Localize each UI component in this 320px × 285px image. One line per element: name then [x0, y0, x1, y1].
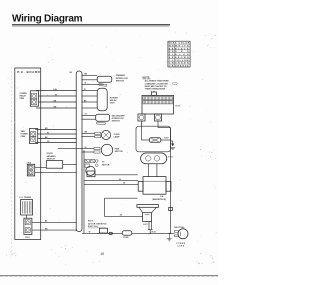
junction dots CN-B wires — [40, 167, 41, 168]
svg-text:(MAGNETRON): (MAGNETRON) — [152, 198, 166, 201]
switch S3 door sensing lower — [99, 228, 107, 233]
svg-text:P.D.S: P.D.S — [88, 221, 94, 223]
ground at plug — [167, 233, 172, 241]
svg-text:24: 24 — [120, 214, 122, 217]
connector CN-B — [27, 164, 34, 176]
svg-text:P.C. BOARD: P.C. BOARD — [17, 70, 40, 74]
lamp plug — [95, 132, 101, 134]
svg-text:INTERLOCK: INTERLOCK — [116, 78, 129, 80]
svg-text:(DOOR SENSING: (DOOR SENSING — [88, 223, 107, 225]
filament housing (magnetron filament) — [141, 153, 167, 164]
label var power pwb — [21, 130, 29, 138]
left margin artifact line — [10, 67, 12, 257]
P.C. board U1 — [15, 68, 41, 240]
junction dots on bus — [76, 75, 83, 231]
magnetron V1 — [138, 177, 171, 195]
svg-text:26: 26 — [85, 147, 87, 149]
wire group2-3 — [38, 138, 76, 140]
wire bus to lamp 1 — [82, 132, 95, 134]
wire filament drop 2 — [156, 164, 158, 177]
svg-text:SWITCH): SWITCH) — [88, 226, 98, 228]
svg-text:SECONDARY: SECONDARY — [112, 114, 126, 117]
wire bus to relay 2 — [82, 95, 97, 97]
wire LV trans to CN-A — [26, 215, 28, 218]
wire fuse to plug — [132, 232, 175, 234]
wire HVC lead 1 — [148, 222, 150, 230]
svg-text:CN-A: CN-A — [25, 236, 30, 239]
title underline thick — [12, 24, 170, 25]
wire bus to primary interlock 2 — [82, 79, 97, 81]
svg-text:19: 19 — [100, 252, 104, 256]
svg-text:BK: BK — [169, 48, 174, 50]
wire group2-4 — [35, 142, 76, 144]
door sensing switch lower label — [88, 221, 107, 228]
svg-text:YL: YL — [169, 60, 174, 62]
HVT top stub — [152, 92, 157, 95]
svg-text:NEUTRAL: NEUTRAL — [174, 226, 185, 229]
label power relay pwb — [20, 93, 28, 100]
wire 24 filament feed 1 — [84, 180, 138, 182]
svg-text:PRIMARY: PRIMARY — [116, 74, 126, 77]
svg-text:W: W — [47, 132, 49, 134]
wire W — [39, 95, 77, 97]
svg-text:25: 25 — [123, 183, 125, 185]
connector CN-A — [24, 218, 32, 234]
svg-text:RD: RD — [169, 51, 174, 53]
svg-text:WIRE COLOR: WIRE COLOR — [169, 43, 190, 45]
wire RD CN-A pin2 — [32, 229, 76, 231]
svg-text:THEIR OPERATIONS: THEIR OPERATIONS — [145, 88, 166, 91]
svg-text:FAN: FAN — [115, 147, 120, 150]
wire door switch to bus — [63, 163, 76, 165]
svg-text:PWB: PWB — [21, 136, 26, 138]
switch S2 secondary interlock — [96, 114, 110, 125]
svg-text:W-16: W-16 — [151, 232, 155, 234]
wire BR — [35, 129, 76, 131]
svg-text:OVEN: OVEN — [114, 134, 120, 136]
motor B1 fan motor — [101, 144, 112, 155]
ground — [170, 147, 175, 149]
wire filament drop 1 — [147, 164, 149, 177]
svg-text:SWITCH: SWITCH — [112, 121, 121, 123]
svg-text:Wiring Diagram: Wiring Diagram — [12, 14, 83, 25]
svg-text:W: W — [85, 83, 87, 85]
svg-text:POWER: POWER — [110, 97, 118, 99]
svg-text:H.V.C.: H.V.C. — [143, 224, 149, 226]
svg-text:UNIT: UNIT — [110, 103, 116, 105]
fan plug — [94, 148, 100, 150]
wire HVC lead 2 — [151, 222, 153, 230]
wire waveguide top feed — [104, 197, 137, 199]
scan noise speckles — [6, 30, 216, 265]
svg-text:CHANGED LOCATIONS: CHANGED LOCATIONS — [145, 82, 169, 85]
svg-text:MUST BE PLACED TO: MUST BE PLACED TO — [145, 85, 167, 88]
switch S1 primary interlock — [97, 76, 112, 86]
terminal bus strip — [76, 71, 82, 232]
title underline thin — [12, 26, 169, 29]
svg-text:BROWN: BROWN — [175, 57, 189, 59]
diode D1 with ground — [171, 141, 175, 146]
wire bus to secondary interlock 1 — [82, 114, 96, 116]
svg-text:CORD: CORD — [177, 245, 185, 247]
svg-text:ORANGE: ORANGE — [175, 65, 189, 68]
connector CN-D (var power pwb) — [30, 129, 38, 144]
svg-text:GN: GN — [169, 63, 174, 65]
svg-text:SWITCH: SWITCH — [116, 81, 125, 83]
transformer T1 H.V.T — [142, 95, 174, 114]
svg-text:MOTOR: MOTOR — [102, 164, 110, 166]
svg-text:BR: BR — [169, 57, 174, 59]
wire 25 filament feed 2 — [84, 183, 138, 185]
svg-text:W: W — [55, 94, 57, 96]
wire W bottom main — [82, 232, 122, 234]
wire bus to lamp 2 — [82, 136, 95, 138]
door sensing switch S4 — [46, 161, 62, 169]
bottom rule — [0, 275, 218, 276]
svg-text:1-40: 1-40 — [53, 88, 57, 91]
relay K1 power relay unit — [97, 88, 107, 110]
svg-text:INTERLOCK: INTERLOCK — [112, 118, 125, 120]
svg-text:SWITCH: SWITCH — [47, 159, 55, 161]
wire BK — [39, 101, 77, 103]
svg-text:WH: WH — [169, 46, 174, 48]
svg-text:T.T.: T.T. — [102, 162, 106, 164]
svg-text:SENSING: SENSING — [47, 156, 56, 158]
lamp DS1 oven lamp — [101, 130, 110, 139]
fuse F1 — [122, 231, 132, 235]
wire right rail down to magnetron — [170, 128, 172, 234]
wire HVF to right rail — [161, 139, 171, 141]
NOTE block — [143, 76, 178, 90]
wire TT motor to HV enclosure — [95, 174, 138, 176]
wire HVT tab1 down to fuse — [141, 121, 143, 140]
H.V. capacitor C1 — [137, 205, 159, 222]
HV compartment enclosure — [136, 126, 171, 152]
svg-text:L.V. TRANS: L.V. TRANS — [20, 196, 32, 199]
wire bus to relay 4 — [82, 107, 97, 109]
wire bus to primary interlock 3 — [82, 83, 104, 85]
connector CN-C (power relay pwb) — [30, 91, 38, 106]
motor B2 turntable motor — [86, 166, 95, 175]
svg-text:2: 2 — [151, 91, 152, 93]
wire HVT tab2 over to right rail — [157, 121, 159, 128]
HVT terminal tab 2 — [155, 114, 162, 121]
wire 24 waveguide bottom feed — [104, 215, 142, 217]
junction dot bottom — [97, 233, 98, 234]
svg-text:W: W — [89, 232, 91, 234]
svg-text:YELLOW: YELLOW — [175, 60, 189, 62]
wire to fan motor 2 — [82, 151, 94, 153]
svg-text:F.F.O: F.F.O — [168, 156, 173, 158]
fuse F2 H.V. fuse — [149, 138, 160, 143]
svg-text:LAMP: LAMP — [114, 136, 121, 139]
wire bus to secondary interlock 2 — [82, 118, 96, 120]
svg-text:CN-B: CN-B — [27, 162, 32, 164]
wire CN-B pin2 — [35, 172, 76, 174]
HVT terminal tab 1 — [138, 114, 145, 121]
svg-text:24: 24 — [119, 178, 121, 181]
wire to fan motor 1 — [58, 148, 94, 150]
wire bus to relay 1 — [82, 90, 97, 92]
wire CN-B pin1 to door switch — [35, 166, 47, 168]
svg-text:PWB: PWB — [20, 98, 25, 100]
vertical feeder wire — [83, 151, 85, 233]
svg-text:DOOR: DOOR — [47, 153, 54, 155]
capacitor C2 motor caps — [85, 159, 98, 167]
svg-text:FUSE: FUSE — [123, 237, 129, 239]
svg-text:ALL WIRES THAT WERE: ALL WIRES THAT WERE — [145, 80, 170, 83]
wire BL CN-A pin1 — [32, 221, 76, 223]
svg-text:OR: OR — [169, 66, 174, 68]
svg-text:BLACK: BLACK — [175, 47, 189, 50]
power plug P1 — [174, 229, 188, 239]
svg-text:RELAY: RELAY — [110, 99, 117, 102]
svg-text:F.A.: F.A. — [160, 195, 164, 198]
svg-text:BL: BL — [169, 54, 174, 56]
wire bus to relay 3 — [82, 101, 97, 103]
wire RD — [36, 107, 76, 109]
wire group2-2 — [38, 133, 76, 135]
svg-text:H.V.T.: H.V.T. — [175, 106, 181, 108]
svg-text:MOTOR: MOTOR — [115, 151, 123, 153]
wire bus to primary interlock 1 — [82, 74, 97, 76]
wire color code table — [168, 41, 190, 67]
wire 1-40 — [36, 90, 76, 92]
